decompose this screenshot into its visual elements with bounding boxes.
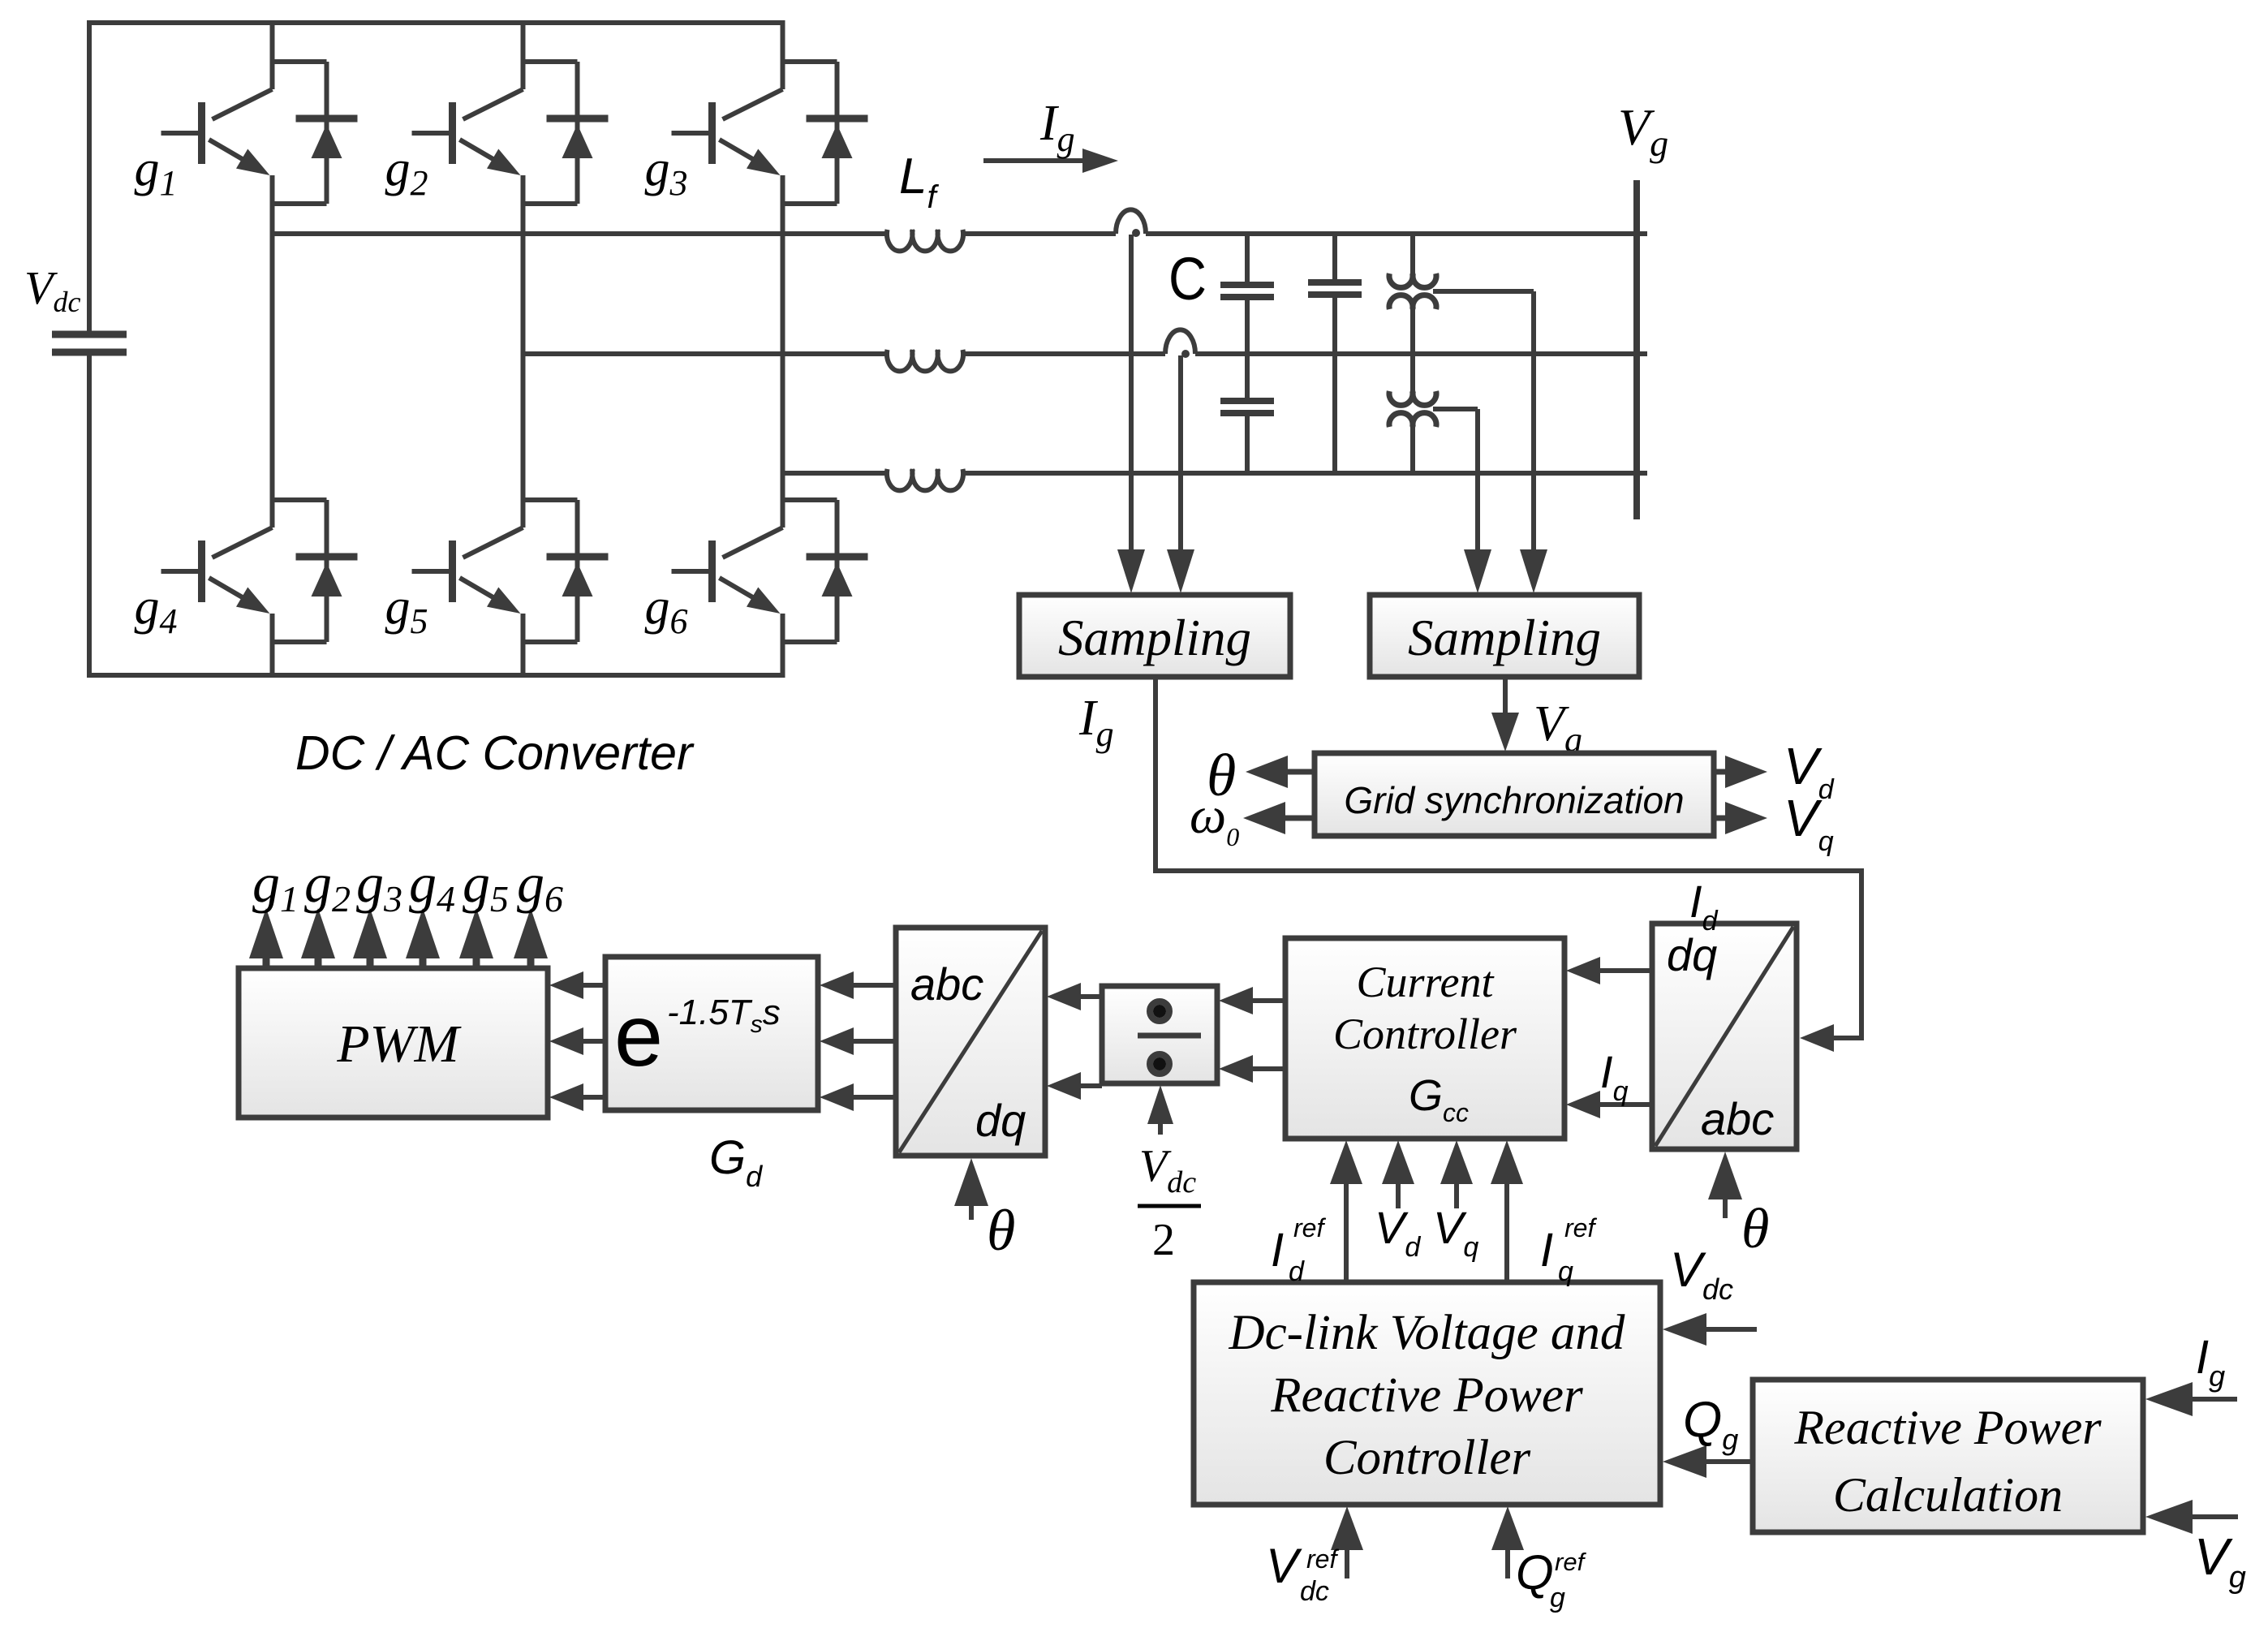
wire leg 1 lower segment	[270, 614, 275, 675]
wire stubs of cell g4	[273, 500, 327, 642]
wire VT1 tap to Sampling	[1531, 291, 1536, 554]
capacitor C-ab (filter)	[1220, 234, 1274, 354]
capacitor Vdc (DC-link)	[52, 334, 127, 352]
wire Vg into Reactive Power Calculation	[2188, 1514, 2238, 1519]
wire Qg from calculation to Dc-link controller	[1702, 1459, 1753, 1464]
wire stubs of cell g1	[273, 62, 327, 204]
svg-text:Controller: Controller	[1323, 1431, 1531, 1485]
diode D6 (antiparallel)	[807, 500, 868, 642]
wire leg 1 upper segment	[270, 23, 275, 89]
wire Gd to PWM row 2	[579, 1039, 605, 1044]
wire stubs of cell g2	[523, 62, 578, 204]
diode D4 (antiparallel)	[296, 500, 358, 642]
transformer VT2 (phase B-C voltage sensor)	[1389, 354, 1478, 473]
wire leg 3 middle segment	[781, 175, 785, 528]
wire Ig into dq/abc (arrow head)	[1800, 1024, 1834, 1052]
svg-text:2: 2	[1152, 1215, 1175, 1265]
wire leg 1 middle segment	[270, 175, 275, 528]
block abc/dq transform	[896, 928, 1045, 1156]
wire Vd output of Grid synchronization	[1714, 769, 1730, 775]
svg-text:Sampling: Sampling	[1408, 609, 1601, 666]
wire bottom DC bus	[87, 673, 785, 678]
label Vdc/2	[1138, 1141, 1201, 1265]
block Gd (computation delay)	[605, 957, 818, 1110]
grid bus bar Vg	[1633, 180, 1640, 519]
wire Qg-ref into Dc-link controller	[1505, 1545, 1510, 1578]
wire gate signal g5 output	[473, 954, 480, 971]
wire Ig into Reactive Power Calculation	[2188, 1397, 2237, 1402]
wire theta output of Grid synchronization	[1283, 769, 1315, 775]
svg-text:abc: abc	[910, 958, 983, 1010]
transistor g1 (IGBT)	[161, 89, 273, 175]
wire VT2 tap to Sampling	[1475, 409, 1480, 554]
transistor g2 (IGBT)	[412, 89, 523, 175]
wire gate signal g4 output	[420, 954, 427, 971]
transistor g5 (IGBT)	[412, 528, 523, 614]
svg-text:Calculation: Calculation	[1833, 1468, 2063, 1522]
svg-text:Reactive Power: Reactive Power	[1270, 1368, 1583, 1423]
wire Vdc/2 into divider	[1158, 1119, 1163, 1135]
block Grid synchronization	[1315, 753, 1714, 836]
svg-text:Reactive Power: Reactive Power	[1793, 1401, 2102, 1454]
diode D1 (antiparallel)	[296, 62, 358, 204]
wire stubs of cell g3	[783, 62, 837, 204]
wire stubs of cell g5	[523, 500, 578, 642]
svg-text:θ: θ	[987, 1198, 1015, 1263]
wire gate signal g1 output	[263, 954, 270, 971]
wire left DC rail upper	[87, 23, 92, 334]
block Sampling (currents)	[1019, 595, 1290, 677]
transistor g3 (IGBT)	[672, 89, 783, 175]
wire Vq into Current Controller	[1454, 1179, 1459, 1208]
transistor g6 (IGBT)	[672, 528, 783, 614]
block divider (modulation scaling)	[1102, 986, 1217, 1083]
wire Vdc into Dc-link controller	[1702, 1327, 1757, 1332]
wire Vq output of Grid synchronization	[1714, 816, 1730, 821]
wire abc/dq to Gd row 1	[849, 983, 896, 988]
svg-text:Current: Current	[1356, 958, 1495, 1006]
wire divider to abc/dq upper	[1076, 994, 1102, 999]
capacitor C-ac (filter)	[1308, 234, 1362, 473]
wire phase A with inductor Lf-a and current sensor	[273, 209, 1648, 251]
block Dc-link Voltage and Reactive Power Controller	[1194, 1282, 1660, 1505]
svg-text:C: C	[1168, 245, 1207, 312]
svg-text:e: e	[614, 986, 663, 1084]
wire current sensor B to Sampling	[1178, 355, 1183, 554]
wire Current Controller to divider upper	[1248, 998, 1285, 1003]
svg-text:PWM: PWM	[336, 1014, 462, 1074]
wire top DC bus	[87, 20, 785, 25]
svg-text:Dc-link Voltage and: Dc-link Voltage and	[1229, 1306, 1625, 1360]
svg-text:Sampling: Sampling	[1058, 609, 1251, 666]
wire leg 2 middle segment	[521, 175, 526, 528]
wire leg 2 upper segment	[521, 23, 526, 89]
wire Gd to PWM row 3	[579, 1095, 605, 1100]
wire gate signal g6 output	[527, 954, 535, 971]
diode D2 (antiparallel)	[547, 62, 609, 204]
wire left DC rail lower	[87, 352, 92, 675]
wire Vg Sampling to Grid synchronization	[1503, 677, 1508, 717]
svg-text:Grid synchronization: Grid synchronization	[1344, 779, 1684, 821]
block dq/abc transform	[1652, 924, 1797, 1149]
svg-text:-1.5Tss: -1.5Tss	[667, 993, 781, 1038]
wire Gd to PWM row 1	[579, 983, 605, 988]
block Current Controller Gcc	[1285, 938, 1564, 1139]
block PWM	[239, 968, 548, 1118]
wire leg 3 lower segment	[781, 614, 785, 675]
wire Current Controller to divider lower	[1248, 1066, 1285, 1071]
wire current sensor A to Sampling	[1129, 235, 1134, 554]
svg-text:Controller: Controller	[1333, 1010, 1517, 1058]
wire omega0 output of Grid synchronization	[1280, 816, 1315, 821]
wire Iq dq/abc to Current Controller	[1595, 1102, 1652, 1107]
label e^-1.5Tss	[614, 986, 781, 1084]
wire gate signal g3 output	[367, 954, 374, 971]
diode D5 (antiparallel)	[547, 500, 609, 642]
wire theta into dq/abc	[1723, 1195, 1728, 1218]
label Ig with arrow (grid current)	[983, 96, 1118, 173]
wire leg 2 lower segment	[521, 614, 526, 675]
capacitor C-bc (filter)	[1220, 354, 1274, 473]
wire phase B with inductor Lf-b and current sensor	[523, 329, 1648, 371]
wire phase C with inductor Lf-c	[783, 469, 1648, 491]
wire stubs of cell g6	[783, 500, 837, 642]
transistor g4 (IGBT)	[161, 528, 273, 614]
block Reactive Power Calculation	[1753, 1380, 2143, 1532]
svg-text:abc: abc	[1701, 1093, 1774, 1144]
transformer VT1 (phase A-B voltage sensor)	[1389, 234, 1534, 354]
wire gate signal g2 output	[315, 954, 322, 971]
svg-text:dq: dq	[975, 1095, 1026, 1146]
wire Id-ref into Current Controller	[1344, 1179, 1349, 1282]
svg-text:dq: dq	[1667, 929, 1717, 980]
wire Iq-ref into Current Controller	[1504, 1179, 1509, 1282]
wire abc/dq to Gd row 2	[849, 1039, 896, 1044]
wire Ig from Sampling to dq/abc (feedback)	[1156, 677, 1861, 1038]
block Sampling (voltages)	[1370, 595, 1639, 677]
wire divider to abc/dq lower	[1076, 1083, 1102, 1088]
diode D3 (antiparallel)	[807, 62, 868, 204]
wire Vdc-ref into Dc-link controller	[1345, 1545, 1349, 1578]
svg-text:θ: θ	[1741, 1198, 1769, 1260]
wire Vd into Current Controller	[1396, 1179, 1401, 1208]
wire theta into abc/dq	[969, 1201, 974, 1220]
svg-text:DC / AC Converter: DC / AC Converter	[295, 726, 695, 780]
wire abc/dq to Gd row 3	[849, 1095, 896, 1100]
wire leg 3 upper segment	[781, 23, 785, 89]
wire Id dq/abc to Current Controller	[1595, 968, 1652, 973]
